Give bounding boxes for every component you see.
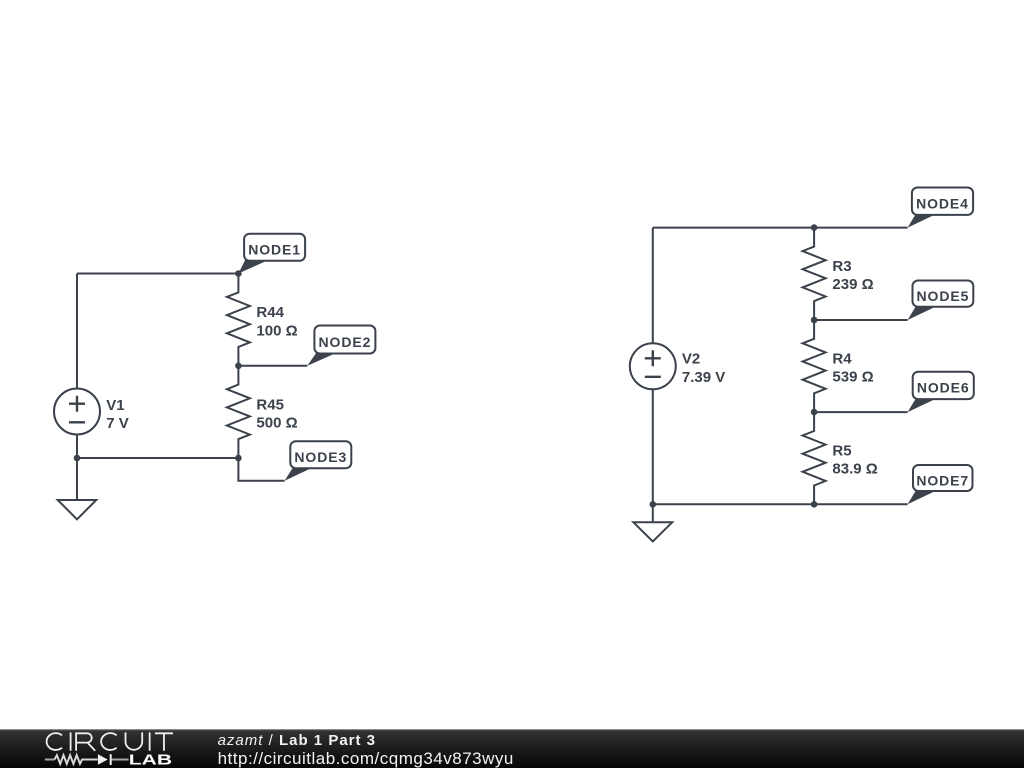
CircuitLab logo: resistor-diode glyph — [45, 754, 129, 765]
resistor R5 — [803, 412, 826, 504]
svg-text:R5: R5 — [832, 442, 851, 459]
wire: NODE3 stub (238.4,458)-(238.4,480.8)-(284.6,480.8) — [238, 458, 284, 481]
wire: right circuit left rail top (652.8,227.6)-(652.8,343.3) — [652, 228, 654, 344]
svg-text:7 V: 7 V — [106, 415, 129, 432]
svg-text:R3: R3 — [832, 258, 851, 275]
node NODE5 — [908, 281, 974, 321]
svg-text:NODE7: NODE7 — [916, 472, 969, 488]
svg-text:R44: R44 — [256, 304, 284, 321]
node NODE7 — [908, 465, 973, 504]
svg-text:LAB: LAB — [129, 752, 172, 768]
ground GND1 — [58, 458, 97, 519]
node NODE3 — [285, 441, 352, 481]
ground GND2 — [633, 504, 672, 541]
svg-text:100 Ω: 100 Ω — [256, 322, 297, 339]
CircuitLab logo: CIRCUIT wordmark (drawn letters) — [47, 732, 173, 750]
wire: NODE2 stub (238.4,365.8)-(307.3,365.8) — [238, 365, 307, 367]
svg-text:500 Ω: 500 Ω — [256, 415, 297, 432]
wire: V1 bottom (77,434.5)-(77,458) — [76, 435, 78, 459]
svg-text:7.39 V: 7.39 V — [682, 369, 725, 386]
svg-text:NODE3: NODE3 — [294, 449, 347, 465]
svg-text:V1: V1 — [106, 397, 124, 414]
junction dot (238.4,458) — [235, 455, 242, 462]
node NODE4 — [908, 188, 974, 228]
svg-text:azamt / Lab 1 Part 3: azamt / Lab 1 Part 3 — [218, 732, 376, 749]
svg-text:NODE5: NODE5 — [917, 288, 970, 304]
wire: bottom horizontal (77,458)-(238.4,458) — [77, 457, 238, 459]
junction dot (652.8,504.3) — [650, 501, 657, 508]
junction dot (814.1,320) — [811, 317, 818, 324]
junction dot (814.1,504.3) — [811, 501, 818, 508]
wire: left rail V1 top (77,273.5)-(77,388.5) — [76, 274, 78, 389]
wire: NODE5 stub (814.1,320)-(907.6,320) — [814, 319, 908, 321]
svg-text:R45: R45 — [256, 396, 284, 413]
wire: right bottom horizontal (652.8,504.3)-(907.6,504.3) — [653, 503, 908, 505]
junction dot (238.4,273.5) — [235, 270, 242, 277]
wire: NODE6 stub (814.1,412.1)-(907.6,412.1) — [814, 411, 908, 413]
svg-text:http://circuitlab.com/cqmg34v8: http://circuitlab.com/cqmg34v873wyu — [218, 749, 514, 768]
voltage source V2 — [630, 343, 676, 389]
svg-text:NODE1: NODE1 — [248, 242, 301, 258]
resistor R4 — [803, 320, 826, 412]
node NODE1 — [238, 234, 305, 274]
svg-text:83.9 Ω: 83.9 Ω — [832, 461, 877, 478]
svg-text:539 Ω: 539 Ω — [832, 368, 873, 385]
junction dot (238.4,365.8) — [235, 363, 242, 370]
node NODE6 — [908, 372, 974, 412]
node NODE2 — [307, 326, 375, 366]
svg-text:NODE6: NODE6 — [917, 380, 970, 396]
junction dot (814.1,412.1) — [811, 409, 818, 416]
svg-text:NODE2: NODE2 — [319, 334, 372, 350]
wire: V2 top horizontal (652.8,227.6)-(907.6,227.6) — [653, 227, 908, 229]
junction dot (814.1,227.6) — [811, 224, 818, 231]
junction dot (77,458) — [74, 455, 81, 462]
voltage source V1 — [54, 389, 100, 435]
resistor R3 — [803, 228, 826, 320]
svg-text:239 Ω: 239 Ω — [832, 276, 873, 293]
svg-text:V2: V2 — [682, 351, 700, 368]
resistor R44 — [227, 274, 250, 366]
svg-text:R4: R4 — [832, 350, 852, 367]
wire: V1 top horizontal (77,273.5)-(238.4,273.5) — [77, 273, 238, 275]
svg-text:NODE4: NODE4 — [916, 196, 969, 212]
resistor R45 — [227, 366, 250, 458]
wire: V2 bottom (652.8,389.3)-(652.8,504.3) — [652, 389, 654, 504]
